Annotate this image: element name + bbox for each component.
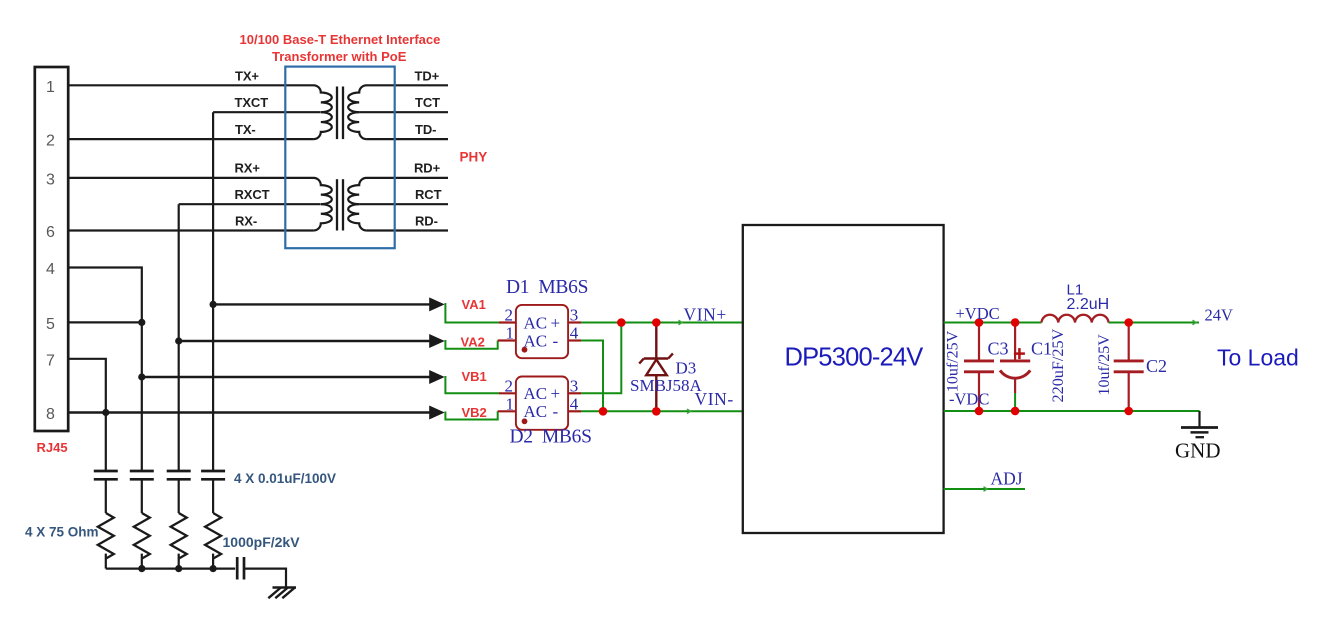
svg-text:2: 2 (505, 306, 514, 325)
svg-text:AC: AC (524, 384, 548, 403)
svg-text:D3: D3 (676, 359, 697, 378)
svg-text:+: + (551, 384, 561, 403)
svg-text:TCT: TCT (415, 95, 440, 110)
svg-text:TD-: TD- (415, 122, 436, 137)
svg-text:RCT: RCT (415, 187, 442, 202)
svg-text:Transformer with PoE: Transformer with PoE (272, 49, 407, 64)
svg-text:4: 4 (570, 394, 579, 413)
svg-text:3: 3 (570, 306, 579, 325)
svg-text:1: 1 (506, 394, 515, 413)
svg-text:5: 5 (46, 316, 55, 333)
svg-text:AC: AC (524, 402, 548, 421)
svg-text:7: 7 (46, 352, 55, 369)
svg-text:D1 MB6S: D1 MB6S (506, 277, 588, 298)
svg-text:10/100 Base-T Ethernet Interfa: 10/100 Base-T Ethernet Interface (240, 32, 441, 47)
svg-text:VB1: VB1 (462, 369, 487, 384)
svg-text:4: 4 (570, 324, 579, 343)
svg-text:4 X 0.01uF/100V: 4 X 0.01uF/100V (234, 471, 336, 486)
svg-text:C2: C2 (1146, 356, 1167, 376)
svg-text:10uf/25V: 10uf/25V (945, 330, 962, 392)
svg-text:RJ45: RJ45 (37, 440, 68, 455)
svg-text:VA2: VA2 (461, 335, 485, 350)
svg-text:1: 1 (506, 324, 515, 343)
svg-text:VIN+: VIN+ (684, 304, 727, 324)
svg-text:10uf/25V: 10uf/25V (1096, 334, 1113, 396)
svg-text:SMBJ58A: SMBJ58A (630, 376, 703, 395)
svg-text:2: 2 (46, 133, 55, 150)
svg-text:RD-: RD- (415, 213, 438, 228)
svg-text:TD+: TD+ (415, 69, 440, 84)
svg-text:-: - (553, 331, 559, 350)
svg-text:1: 1 (46, 79, 55, 96)
svg-text:4: 4 (46, 261, 55, 278)
svg-text:4 X 75 Ohm: 4 X 75 Ohm (25, 525, 99, 540)
svg-text:3: 3 (46, 172, 55, 189)
svg-text:ADJ: ADJ (991, 469, 1023, 489)
svg-text:220uF/25V: 220uF/25V (1049, 328, 1067, 402)
svg-text:TXCT: TXCT (235, 95, 269, 110)
svg-text:VA1: VA1 (462, 297, 486, 312)
svg-text:2: 2 (505, 376, 514, 395)
svg-text:RXCT: RXCT (235, 187, 270, 202)
svg-text:3: 3 (570, 376, 579, 395)
svg-text:PHY: PHY (460, 150, 488, 165)
svg-text:To Load: To Load (1217, 345, 1299, 371)
svg-text:DP5300-24V: DP5300-24V (784, 343, 923, 371)
svg-text:TX+: TX+ (235, 69, 259, 84)
svg-text:RD+: RD+ (414, 161, 441, 176)
svg-text:6: 6 (46, 224, 55, 241)
svg-text:VB2: VB2 (462, 405, 487, 420)
svg-text:AC: AC (524, 331, 548, 350)
svg-text:1000pF/2kV: 1000pF/2kV (223, 534, 301, 550)
svg-text:+VDC: +VDC (956, 304, 1000, 323)
svg-text:C3: C3 (988, 339, 1009, 359)
svg-text:TX-: TX- (235, 122, 256, 137)
svg-text:D2 MB6S: D2 MB6S (510, 427, 592, 448)
svg-text:-: - (553, 402, 559, 421)
svg-text:+: + (551, 313, 561, 332)
svg-text:GND: GND (1175, 439, 1221, 463)
svg-text:2.2uH: 2.2uH (1067, 296, 1110, 313)
svg-text:8: 8 (46, 406, 55, 423)
svg-text:24V: 24V (1205, 305, 1234, 324)
svg-text:AC: AC (524, 313, 548, 332)
svg-text:RX+: RX+ (235, 161, 261, 176)
svg-text:RX-: RX- (235, 213, 257, 228)
